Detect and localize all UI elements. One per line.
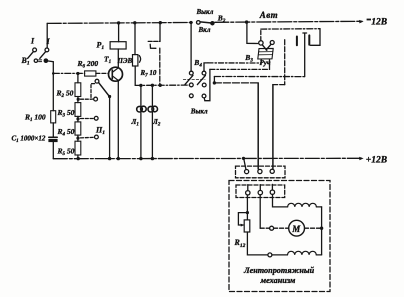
wire R6 to T1 base (96, 72, 109, 74)
wire motor to rail (305, 227, 322, 229)
wire coil1 to rail (316, 206, 321, 208)
resistor R7 (133, 55, 138, 66)
wire R2-R3 (77, 97, 79, 103)
terminal circle motor (270, 226, 274, 230)
wire top bus -12V right segment (215, 21, 362, 22)
wire R5 to bus (77, 155, 79, 159)
wire bus to relay P1 coil (118, 23, 120, 42)
inductor coil L1 top (288, 203, 317, 207)
inductor coil L2 bottom (288, 251, 317, 255)
wire bus to connector pin1 (244, 158, 246, 169)
svg-text:R4 50: R4 50 (57, 127, 75, 138)
node bottom bus connector dot (242, 157, 245, 160)
resistor R3 (75, 103, 81, 117)
switch B3 levers (262, 44, 271, 50)
wire line3 (214, 76, 304, 78)
node A junction dot (52, 72, 55, 75)
wire node to R2 (77, 74, 79, 83)
wire bottom bus +12V (53, 157, 362, 159)
wire line1 to B3 (208, 62, 261, 64)
resistor R6 (85, 71, 96, 76)
wire R12 to bottom branch (247, 232, 268, 255)
switch P1 contact 2 (94, 97, 98, 101)
wire R7 to lamp line (134, 66, 136, 85)
svg-text:R3 50: R3 50 (57, 108, 75, 119)
svg-text:М: М (291, 224, 301, 234)
node wiper bus dot (108, 157, 111, 160)
lamp L1 (137, 85, 147, 158)
wire B3 pole1 down (260, 59, 262, 63)
wire line2 to B3 (210, 68, 270, 70)
node rail motor dot (320, 227, 323, 230)
svg-text:R6 200: R6 200 (77, 59, 99, 70)
terminal circle bottom branch (268, 253, 272, 257)
capacitor C1 (49, 137, 57, 158)
node R5 bus dot (77, 157, 80, 160)
switch B3 contact 2 (270, 41, 274, 45)
svg-text:ПЭВ: ПЭВ (117, 57, 133, 65)
switch P1 contact 3 (94, 116, 98, 120)
relay armature block B3 (258, 48, 273, 59)
resistor R2 (75, 83, 81, 97)
node top bus arrowhead (359, 20, 363, 24)
svg-text:R5 50: R5 50 (57, 147, 75, 158)
wire T1 emitter to bus (117, 81, 119, 159)
wire right rail (321, 207, 323, 255)
node top bus R7 feed dot (133, 21, 136, 24)
connector upper row (236, 166, 286, 178)
node top bus B4 feed dot (189, 21, 192, 24)
lamp L2 (148, 85, 158, 158)
switch B3 contact 1 (259, 41, 263, 45)
node T1 bus dot (117, 157, 120, 160)
wire B1 to node A (47, 61, 53, 74)
wire B3 line up corner (260, 29, 262, 40)
rheostat R12 (238, 213, 249, 232)
node R2/R3 dot (77, 98, 80, 101)
connector center pin (303, 33, 307, 77)
switch P1 contact 1 (95, 79, 99, 83)
svg-text:+12В: +12В (366, 156, 387, 166)
svg-text:Выкл: Выкл (190, 108, 208, 116)
resistor R5 (75, 141, 81, 155)
wire bus to B3 (247, 22, 258, 43)
wire terminal to coil2 (272, 254, 288, 256)
svg-text:Выкл: Выкл (196, 8, 214, 16)
wire stub node to contact2 (81, 98, 92, 100)
switch P1 contact 4 (95, 135, 99, 139)
switch P1 wiper lever (99, 83, 110, 97)
node R2 top junction dot (76, 72, 79, 75)
wire P1 contact1-2 link (91, 84, 95, 100)
node top bus relay contact feed dot (159, 21, 162, 24)
node bottom bus arrowhead (359, 157, 363, 161)
wire B4 bottom right elbow (204, 69, 210, 100)
wire lamp line (135, 84, 189, 86)
node R4/R5 dot (76, 137, 79, 140)
tape mechanism box (229, 181, 330, 292)
node R12 tap dot (246, 211, 249, 214)
wire head line (261, 29, 320, 46)
connector lower row (236, 184, 285, 197)
wire B3 pole2 down (269, 59, 271, 69)
svg-text:Авт: Авт (259, 10, 278, 20)
node lamp2 bus dot (151, 157, 154, 160)
wire R4-R5 (77, 135, 79, 141)
resistor R1 (51, 73, 56, 136)
relay coil P1 (110, 42, 126, 49)
node line3/line4 dot (213, 81, 216, 84)
node lamp1 bus dot (139, 157, 142, 160)
wire motor branch (259, 195, 261, 228)
relay contact P1.1 (148, 23, 160, 86)
wire terminal to motor (274, 227, 289, 229)
wire stub node to contact3 (81, 118, 95, 120)
svg-text:R1 100: R1 100 (24, 113, 46, 124)
transistor T1 (109, 67, 123, 81)
label -12V (367, 17, 387, 27)
svg-text:Вкл: Вкл (198, 26, 211, 34)
wire connector feed right (273, 40, 285, 169)
wire stub node to contact4 (81, 136, 95, 139)
wire top bus -12V left segment (47, 21, 192, 24)
wire R12 branch (246, 195, 248, 220)
node P1 wiper dot (108, 95, 111, 98)
resistor R4 (75, 122, 81, 135)
svg-text:Лентопротяжный: Лентопротяжный (243, 266, 315, 275)
node R3/R4 dot (76, 117, 79, 120)
svg-text:12В: 12В (371, 17, 387, 27)
wire node A to R6 (53, 72, 84, 74)
node lamp line contact dot (159, 84, 162, 87)
wire line3 vertical tick (213, 77, 215, 83)
wire line4 (214, 83, 258, 169)
decorative paren after R7 (139, 56, 140, 63)
switch B2 (197, 21, 214, 25)
wire bus to B4 (190, 23, 192, 72)
connector pin left plate (296, 37, 298, 46)
node lamp1 dot (139, 84, 142, 87)
node lamp2 dot (151, 84, 154, 87)
wire bus to R7 (134, 23, 136, 55)
wire P1 wiper to bus (109, 97, 111, 159)
node top bus P1 relay feed dot (117, 21, 120, 24)
wire coil1 branch (273, 194, 288, 207)
connector pin right plate (308, 35, 310, 44)
svg-text:механизм: механизм (260, 276, 296, 285)
wire coil2 to rail (316, 254, 321, 256)
wire motor branch elbow (260, 227, 269, 229)
switch B4 (183, 71, 206, 98)
motor M (289, 220, 305, 236)
label +12V (366, 156, 387, 166)
wire R3-R4 (77, 116, 79, 122)
switch B1 (28, 23, 49, 62)
svg-text:R2 50: R2 50 (56, 88, 74, 99)
node top bus B3 feed dot (245, 20, 248, 23)
wire relay P1 to T1 collector (117, 49, 119, 67)
wire B4 top right to line1 (204, 63, 208, 71)
